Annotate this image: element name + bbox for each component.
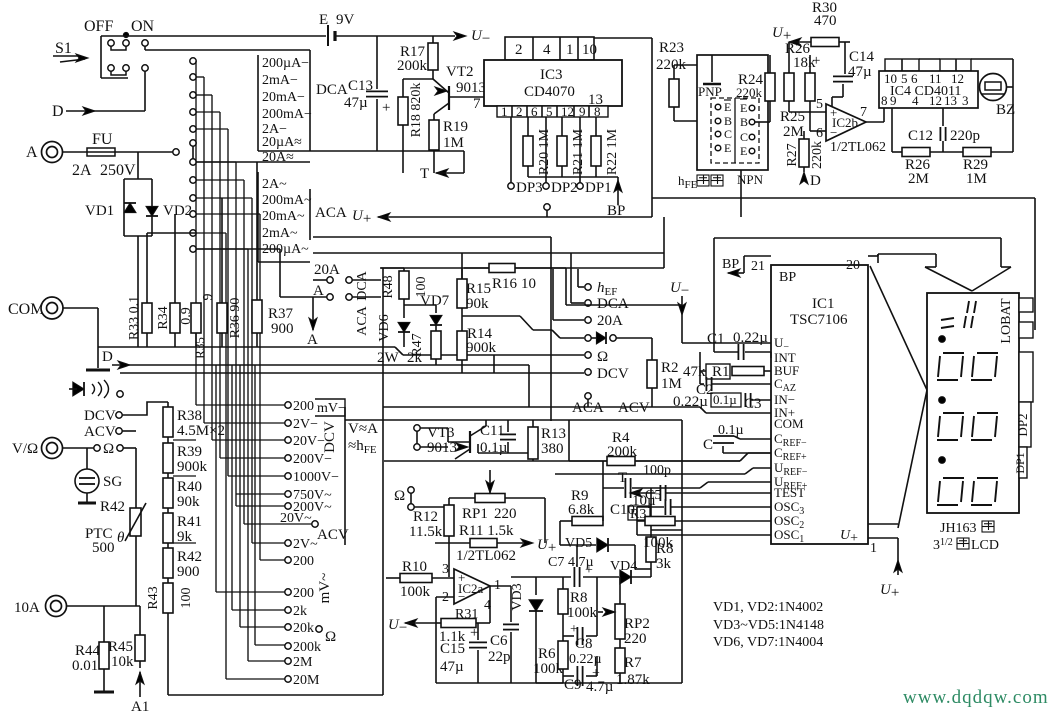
svg-text:220k: 220k (736, 85, 763, 100)
discharge tube SG (86, 448, 88, 469)
svg-text:C14: C14 (849, 49, 875, 65)
switch S1 contacts (108, 40, 114, 46)
svg-text:4.7µ: 4.7µ (586, 679, 614, 695)
svg-text:BP: BP (779, 270, 796, 285)
LCD dot 2 (939, 397, 946, 404)
svg-text:LCD: LCD (971, 538, 999, 553)
svg-text:B: B (724, 114, 732, 128)
svg-text:220: 220 (494, 506, 517, 522)
svg-text:COM: COM (774, 416, 804, 431)
svg-text:9: 9 (201, 294, 216, 301)
svg-text:R36 90: R36 90 (228, 298, 243, 339)
svg-text:C9: C9 (564, 677, 582, 693)
jack diode pair (585, 335, 591, 341)
jack ohm pair (63, 447, 94, 449)
svg-text:3: 3 (962, 93, 969, 108)
svg-text:R8: R8 (570, 590, 588, 606)
svg-text:10k: 10k (111, 654, 134, 670)
wire mid box (568, 420, 570, 461)
svg-text:20A: 20A (597, 313, 623, 329)
wire bp box (714, 237, 1001, 239)
svg-text:R23: R23 (659, 40, 684, 56)
svg-text:VD1, VD2:1N4002: VD1, VD2:1N4002 (713, 600, 823, 615)
jack DP3 (508, 183, 514, 189)
svg-text:+: + (592, 666, 600, 681)
svg-text:1: 1 (501, 104, 508, 119)
wire ic2b out (866, 121, 884, 123)
wire BZ right (919, 58, 940, 60)
IC3 bottom pin row (497, 106, 608, 117)
hFE dashed box (711, 98, 759, 163)
svg-text:200V−: 200V− (293, 452, 332, 467)
jack aca dca pair (346, 277, 352, 283)
svg-text:20mA~: 20mA~ (262, 209, 305, 224)
svg-text:Ω: Ω (325, 629, 336, 645)
svg-text:ACA: ACA (315, 205, 347, 221)
svg-text:12: 12 (561, 104, 574, 119)
svg-text:Ω: Ω (103, 441, 114, 457)
svg-text:1/2TL062: 1/2TL062 (830, 140, 886, 155)
op-amp IC3 body (484, 60, 622, 106)
capacitor 100p (660, 485, 665, 501)
svg-text:TSC7106: TSC7106 (790, 312, 848, 328)
svg-text:R33 0.1: R33 0.1 (127, 296, 142, 340)
svg-text:0.01: 0.01 (72, 658, 98, 674)
svg-text:RP1: RP1 (462, 506, 488, 522)
VD1 VD2 box (124, 179, 152, 236)
buzzer BZ (980, 74, 1007, 101)
svg-text:LOBAT: LOBAT (999, 298, 1014, 344)
wire 20A range (196, 161, 310, 163)
svg-text:FU: FU (92, 131, 113, 148)
wire DP nets (511, 117, 618, 183)
capacitor C3 (711, 393, 741, 407)
jack DP2 (543, 183, 549, 189)
svg-text:C3: C3 (744, 396, 762, 412)
wire bus151 (378, 150, 464, 152)
svg-text:JH163: JH163 (940, 521, 977, 536)
svg-text:DP1: DP1 (1013, 452, 1027, 473)
svg-text:R12: R12 (413, 509, 438, 525)
svg-text:900: 900 (177, 564, 200, 580)
svg-text:R42: R42 (100, 499, 125, 515)
svg-text:200mA~: 200mA~ (262, 193, 312, 208)
svg-text:47µ: 47µ (440, 659, 464, 675)
svg-text:θ: θ (117, 530, 125, 546)
svg-text:R42: R42 (177, 549, 202, 565)
DCA range labels (262, 56, 312, 165)
svg-text:SG: SG (103, 474, 122, 490)
jack DCA2 (585, 300, 591, 306)
wire ic1 osc right (868, 523, 898, 525)
svg-text:DCA: DCA (597, 296, 629, 312)
svg-text:200: 200 (293, 554, 314, 569)
svg-text:R20 1M: R20 1M (537, 128, 552, 175)
resistor R33 (142, 303, 152, 333)
svg-text:C12: C12 (908, 128, 933, 144)
wire lcd top right (652, 197, 1035, 199)
svg-text:OFF: OFF (84, 18, 113, 35)
node circle bp (544, 204, 550, 210)
svg-text:D: D (102, 349, 113, 365)
svg-text:R41: R41 (177, 514, 202, 530)
svg-text:100k: 100k (643, 535, 674, 551)
jack DCV2 (585, 369, 591, 375)
svg-text:E: E (319, 12, 328, 28)
svg-text:8: 8 (594, 104, 601, 119)
svg-text:+: + (382, 100, 390, 116)
resistor R39 (163, 443, 173, 473)
svg-text:220p: 220p (950, 128, 980, 144)
svg-text:2V−: 2V− (293, 417, 318, 432)
wire hfe drop (740, 170, 742, 217)
svg-text:9V: 9V (336, 12, 355, 28)
svg-text:20mA−: 20mA− (262, 90, 305, 105)
svg-text:E: E (724, 100, 731, 114)
net D arrow up (800, 172, 808, 184)
wire ic2a inputs (434, 542, 436, 544)
svg-text:2: 2 (516, 104, 523, 119)
wire switch ON row (144, 46, 146, 50)
svg-text:200: 200 (293, 586, 314, 601)
svg-text:90k: 90k (466, 296, 489, 312)
svg-text:C7: C7 (548, 555, 564, 570)
svg-text:R7: R7 (624, 655, 642, 671)
svg-text:R44: R44 (75, 643, 101, 659)
svg-text:1000V−: 1000V− (293, 470, 339, 485)
svg-text:47k: 47k (683, 364, 706, 380)
wire switch to battery (128, 35, 326, 37)
LCD digit 2 (937, 353, 998, 380)
svg-text:2A~: 2A~ (262, 177, 287, 192)
svg-text:V≈A: V≈A (348, 421, 378, 437)
svg-text:IC4 CD4011: IC4 CD4011 (890, 84, 961, 99)
svg-text:9: 9 (579, 104, 586, 119)
svg-text:200: 200 (293, 399, 314, 414)
wire D to switch (144, 71, 146, 111)
svg-text:R11 1.5k: R11 1.5k (459, 523, 514, 539)
svg-text:380: 380 (541, 441, 564, 457)
wire bus 237 (313, 236, 551, 238)
svg-text:4.5M×2: 4.5M×2 (177, 423, 225, 439)
svg-text:220: 220 (624, 631, 647, 647)
svg-text:Ω: Ω (394, 488, 405, 504)
svg-text:47µ: 47µ (848, 64, 872, 80)
svg-text:R34: R34 (156, 306, 171, 329)
svg-text:100p: 100p (643, 463, 671, 478)
wire uref plus row (651, 487, 700, 489)
svg-text:200mA−: 200mA− (262, 107, 312, 122)
svg-text:DP2: DP2 (551, 180, 578, 196)
svg-text:2M: 2M (908, 171, 929, 187)
net BP arrow (617, 177, 619, 205)
IC1 body (771, 265, 868, 544)
svg-text:R40: R40 (177, 479, 202, 495)
wire bus 253 (313, 252, 664, 254)
wire IC4 bottom left (891, 108, 893, 152)
LCD dot 1 (939, 336, 946, 343)
svg-text:CD4070: CD4070 (524, 84, 575, 100)
range contacts DCV ACV ohm (280, 399, 339, 688)
svg-text:ON: ON (131, 18, 155, 35)
svg-text:220k: 220k (810, 141, 825, 169)
svg-text:900k: 900k (466, 340, 497, 356)
svg-text:R27: R27 (785, 143, 800, 166)
LCD dot 3 (939, 457, 946, 464)
ground com (86, 369, 110, 372)
svg-text:5: 5 (816, 97, 823, 112)
svg-text:Ω: Ω (597, 349, 608, 365)
svg-text:TEST: TEST (774, 485, 805, 500)
svg-text:6.8k: 6.8k (568, 502, 595, 518)
svg-text:8: 8 (881, 93, 888, 108)
svg-text:R13: R13 (541, 426, 566, 442)
jack 20A2 (585, 317, 591, 323)
svg-text:R1: R1 (712, 364, 730, 380)
svg-text:R37: R37 (268, 306, 294, 322)
LCD half digit 1 (941, 301, 976, 328)
switch S1 body (101, 36, 128, 78)
wire chain bottom (167, 613, 169, 695)
hFE ground bar (711, 55, 713, 82)
wire IC3 top right (594, 37, 652, 39)
resistor R35 (191, 303, 201, 333)
resistor R36 (217, 303, 227, 333)
svg-text:A1: A1 (131, 699, 149, 712)
wire BP vertical (651, 38, 653, 217)
svg-text:V/Ω: V/Ω (12, 441, 38, 457)
resistor R41 (163, 513, 173, 543)
svg-text:T: T (618, 470, 627, 486)
svg-text:1M: 1M (661, 376, 682, 392)
svg-text:2k: 2k (407, 350, 423, 366)
svg-text:2W: 2W (377, 350, 400, 366)
net A arrow (312, 297, 314, 330)
svg-text:C: C (724, 127, 732, 141)
svg-text:2: 2 (515, 42, 523, 58)
wire c7 row (511, 576, 571, 578)
hFE socket contacts (715, 99, 755, 158)
svg-text:9013: 9013 (456, 80, 486, 96)
svg-text:ACV: ACV (618, 400, 650, 416)
svg-text:R19: R19 (443, 119, 468, 135)
resistor R29 (963, 148, 991, 157)
jack ohm2 (585, 352, 591, 358)
svg-text:+: + (585, 563, 593, 578)
svg-text:7: 7 (473, 96, 481, 112)
svg-text:100: 100 (179, 588, 194, 609)
svg-text:47µ: 47µ (344, 95, 368, 111)
svg-text:6: 6 (816, 126, 823, 141)
svg-text:1: 1 (870, 541, 877, 556)
svg-text:250V: 250V (100, 162, 136, 179)
svg-text:500: 500 (92, 540, 115, 556)
svg-text:D: D (810, 173, 821, 189)
resistor R20 (527, 117, 529, 136)
wire VD box down (137, 236, 139, 347)
resistor R34 (170, 303, 180, 333)
svg-text:C11: C11 (480, 423, 504, 439)
svg-text:11.5k: 11.5k (409, 524, 443, 540)
svg-text:22p: 22p (488, 649, 511, 665)
svg-text:0.1µ: 0.1µ (713, 392, 737, 407)
rotary contacts (190, 58, 196, 252)
svg-text:5: 5 (546, 104, 553, 119)
svg-text:VD6, VD7:1N4004: VD6, VD7:1N4004 (713, 635, 823, 650)
wire mid verticals (168, 268, 383, 695)
svg-text:mV~: mV~ (317, 573, 333, 604)
svg-text:R21 1M: R21 1M (571, 128, 586, 175)
svg-text:VD6: VD6 (377, 314, 392, 341)
svg-text:ACA: ACA (355, 305, 370, 335)
wire COM (63, 307, 98, 309)
svg-text:E: E (740, 144, 747, 158)
svg-text:R35: R35 (192, 337, 207, 359)
svg-text:0.22µ: 0.22µ (733, 330, 768, 346)
svg-text:R6: R6 (538, 646, 556, 662)
svg-text:ACV: ACV (317, 527, 349, 543)
wire VT2 base to IC3 (449, 96, 484, 98)
svg-text:C6: C6 (490, 633, 508, 649)
svg-text:VD7: VD7 (420, 293, 450, 309)
svg-text:C15: C15 (440, 641, 465, 657)
resistor R40 (163, 478, 173, 508)
svg-text:R2: R2 (661, 360, 679, 376)
jack hEF (585, 284, 591, 290)
svg-text:18k: 18k (793, 55, 816, 71)
op-amp IC2a (454, 569, 490, 604)
svg-text:10: 10 (521, 276, 536, 292)
svg-text:1M: 1M (443, 135, 464, 151)
svg-text:4: 4 (543, 42, 551, 58)
svg-text:PNP: PNP (698, 84, 722, 99)
svg-text:DP2: DP2 (1015, 413, 1030, 436)
svg-text:R43: R43 (146, 586, 161, 609)
svg-text:ACV: ACV (84, 424, 116, 440)
svg-text:6: 6 (531, 104, 538, 119)
wire vt3 box top (345, 419, 682, 421)
svg-text:9k: 9k (177, 529, 193, 545)
svg-text:R15: R15 (466, 281, 491, 297)
svg-text:2mA−: 2mA− (262, 73, 298, 88)
wire middle box top (381, 267, 404, 269)
svg-text:C: C (703, 437, 713, 453)
ACA range box (258, 172, 310, 262)
svg-text:VD3~VD5:1N4148: VD3~VD5:1N4148 (713, 618, 824, 633)
svg-text:DCV: DCV (322, 421, 338, 453)
LCD tabs (1019, 298, 1033, 312)
net U- arrow (454, 32, 466, 40)
jack ACAACV (585, 393, 591, 399)
svg-text:2V~: 2V~ (293, 537, 318, 552)
svg-text:R38: R38 (177, 408, 202, 424)
svg-text:RP2: RP2 (624, 616, 650, 632)
wire battery to U- (336, 35, 455, 37)
resistor R38 (163, 407, 173, 437)
svg-text:R10: R10 (402, 559, 427, 575)
svg-text:2M: 2M (293, 655, 313, 670)
svg-text:90k: 90k (177, 494, 200, 510)
svg-text:2M: 2M (783, 124, 804, 140)
svg-text:2A: 2A (72, 162, 92, 179)
svg-text:20V~: 20V~ (280, 511, 312, 526)
svg-text:E: E (740, 101, 747, 115)
svg-text:A: A (26, 144, 38, 161)
svg-text:D: D (52, 103, 64, 120)
shunt feed wires (147, 162, 257, 347)
wire osc1 (636, 507, 638, 535)
wire D bus (98, 346, 395, 348)
svg-text:VD5: VD5 (565, 536, 592, 551)
svg-text:R18 820k: R18 820k (409, 83, 424, 138)
svg-text:1.87k: 1.87k (616, 672, 650, 688)
svg-text:R22 1M: R22 1M (605, 128, 620, 175)
svg-text:7: 7 (860, 105, 867, 120)
svg-text:200k: 200k (397, 58, 428, 74)
jack DP1 (577, 183, 583, 189)
svg-text:+: + (470, 625, 478, 641)
svg-text:E: E (724, 141, 731, 155)
jack vt3 pair (414, 425, 420, 431)
resistor R22 (595, 117, 597, 136)
wire bus 374 (120, 372, 494, 374)
svg-text:R48: R48 (381, 275, 396, 298)
svg-text:470: 470 (814, 13, 837, 29)
svg-text:VT2: VT2 (446, 64, 474, 80)
svg-text:R45: R45 (108, 639, 133, 655)
svg-text:BP: BP (607, 203, 625, 219)
svg-text:DCV: DCV (84, 408, 116, 424)
svg-text:A: A (307, 332, 318, 348)
svg-text:C1: C1 (707, 331, 725, 347)
chain connect wires (167, 402, 169, 583)
wire r8 mid (681, 529, 683, 531)
svg-text:20M: 20M (293, 673, 320, 688)
wire v-bus lcd (870, 266, 927, 390)
svg-text:100k: 100k (567, 605, 598, 621)
LCD digit 4 (937, 478, 998, 505)
resistor R43 (163, 583, 173, 613)
svg-text:200µA−: 200µA− (262, 56, 309, 71)
svg-text:3: 3 (442, 562, 449, 577)
wire fuse to rotary (115, 151, 173, 153)
svg-text:VD3: VD3 (510, 583, 525, 610)
buzzer LED (73, 382, 84, 396)
svg-text:R39: R39 (177, 444, 202, 460)
DCA range box (258, 50, 378, 151)
wire dcv jack to chain (122, 402, 168, 415)
svg-text:B: B (740, 115, 748, 129)
wire opamp inputs (789, 111, 826, 113)
LCD body (927, 293, 1019, 513)
svg-text:VD1: VD1 (85, 203, 114, 219)
svg-text:IC2a: IC2a (458, 581, 484, 596)
wire bundle selector ranges (173, 61, 312, 679)
svg-text:20: 20 (846, 258, 860, 273)
svg-text:DP3: DP3 (516, 180, 543, 196)
wire 10A (67, 605, 140, 607)
svg-text:20V−: 20V− (293, 434, 325, 449)
IC1 pin labels (774, 335, 808, 545)
resistor R21 (561, 117, 563, 136)
svg-text:100k: 100k (400, 584, 431, 600)
big arrow to LCD (878, 238, 1011, 291)
svg-text:COM: COM (8, 301, 44, 318)
svg-text:900: 900 (271, 321, 294, 337)
op-amp IC2b (826, 104, 866, 141)
svg-text:2mA~: 2mA~ (262, 226, 298, 241)
svg-text:IC2b: IC2b (832, 115, 858, 130)
